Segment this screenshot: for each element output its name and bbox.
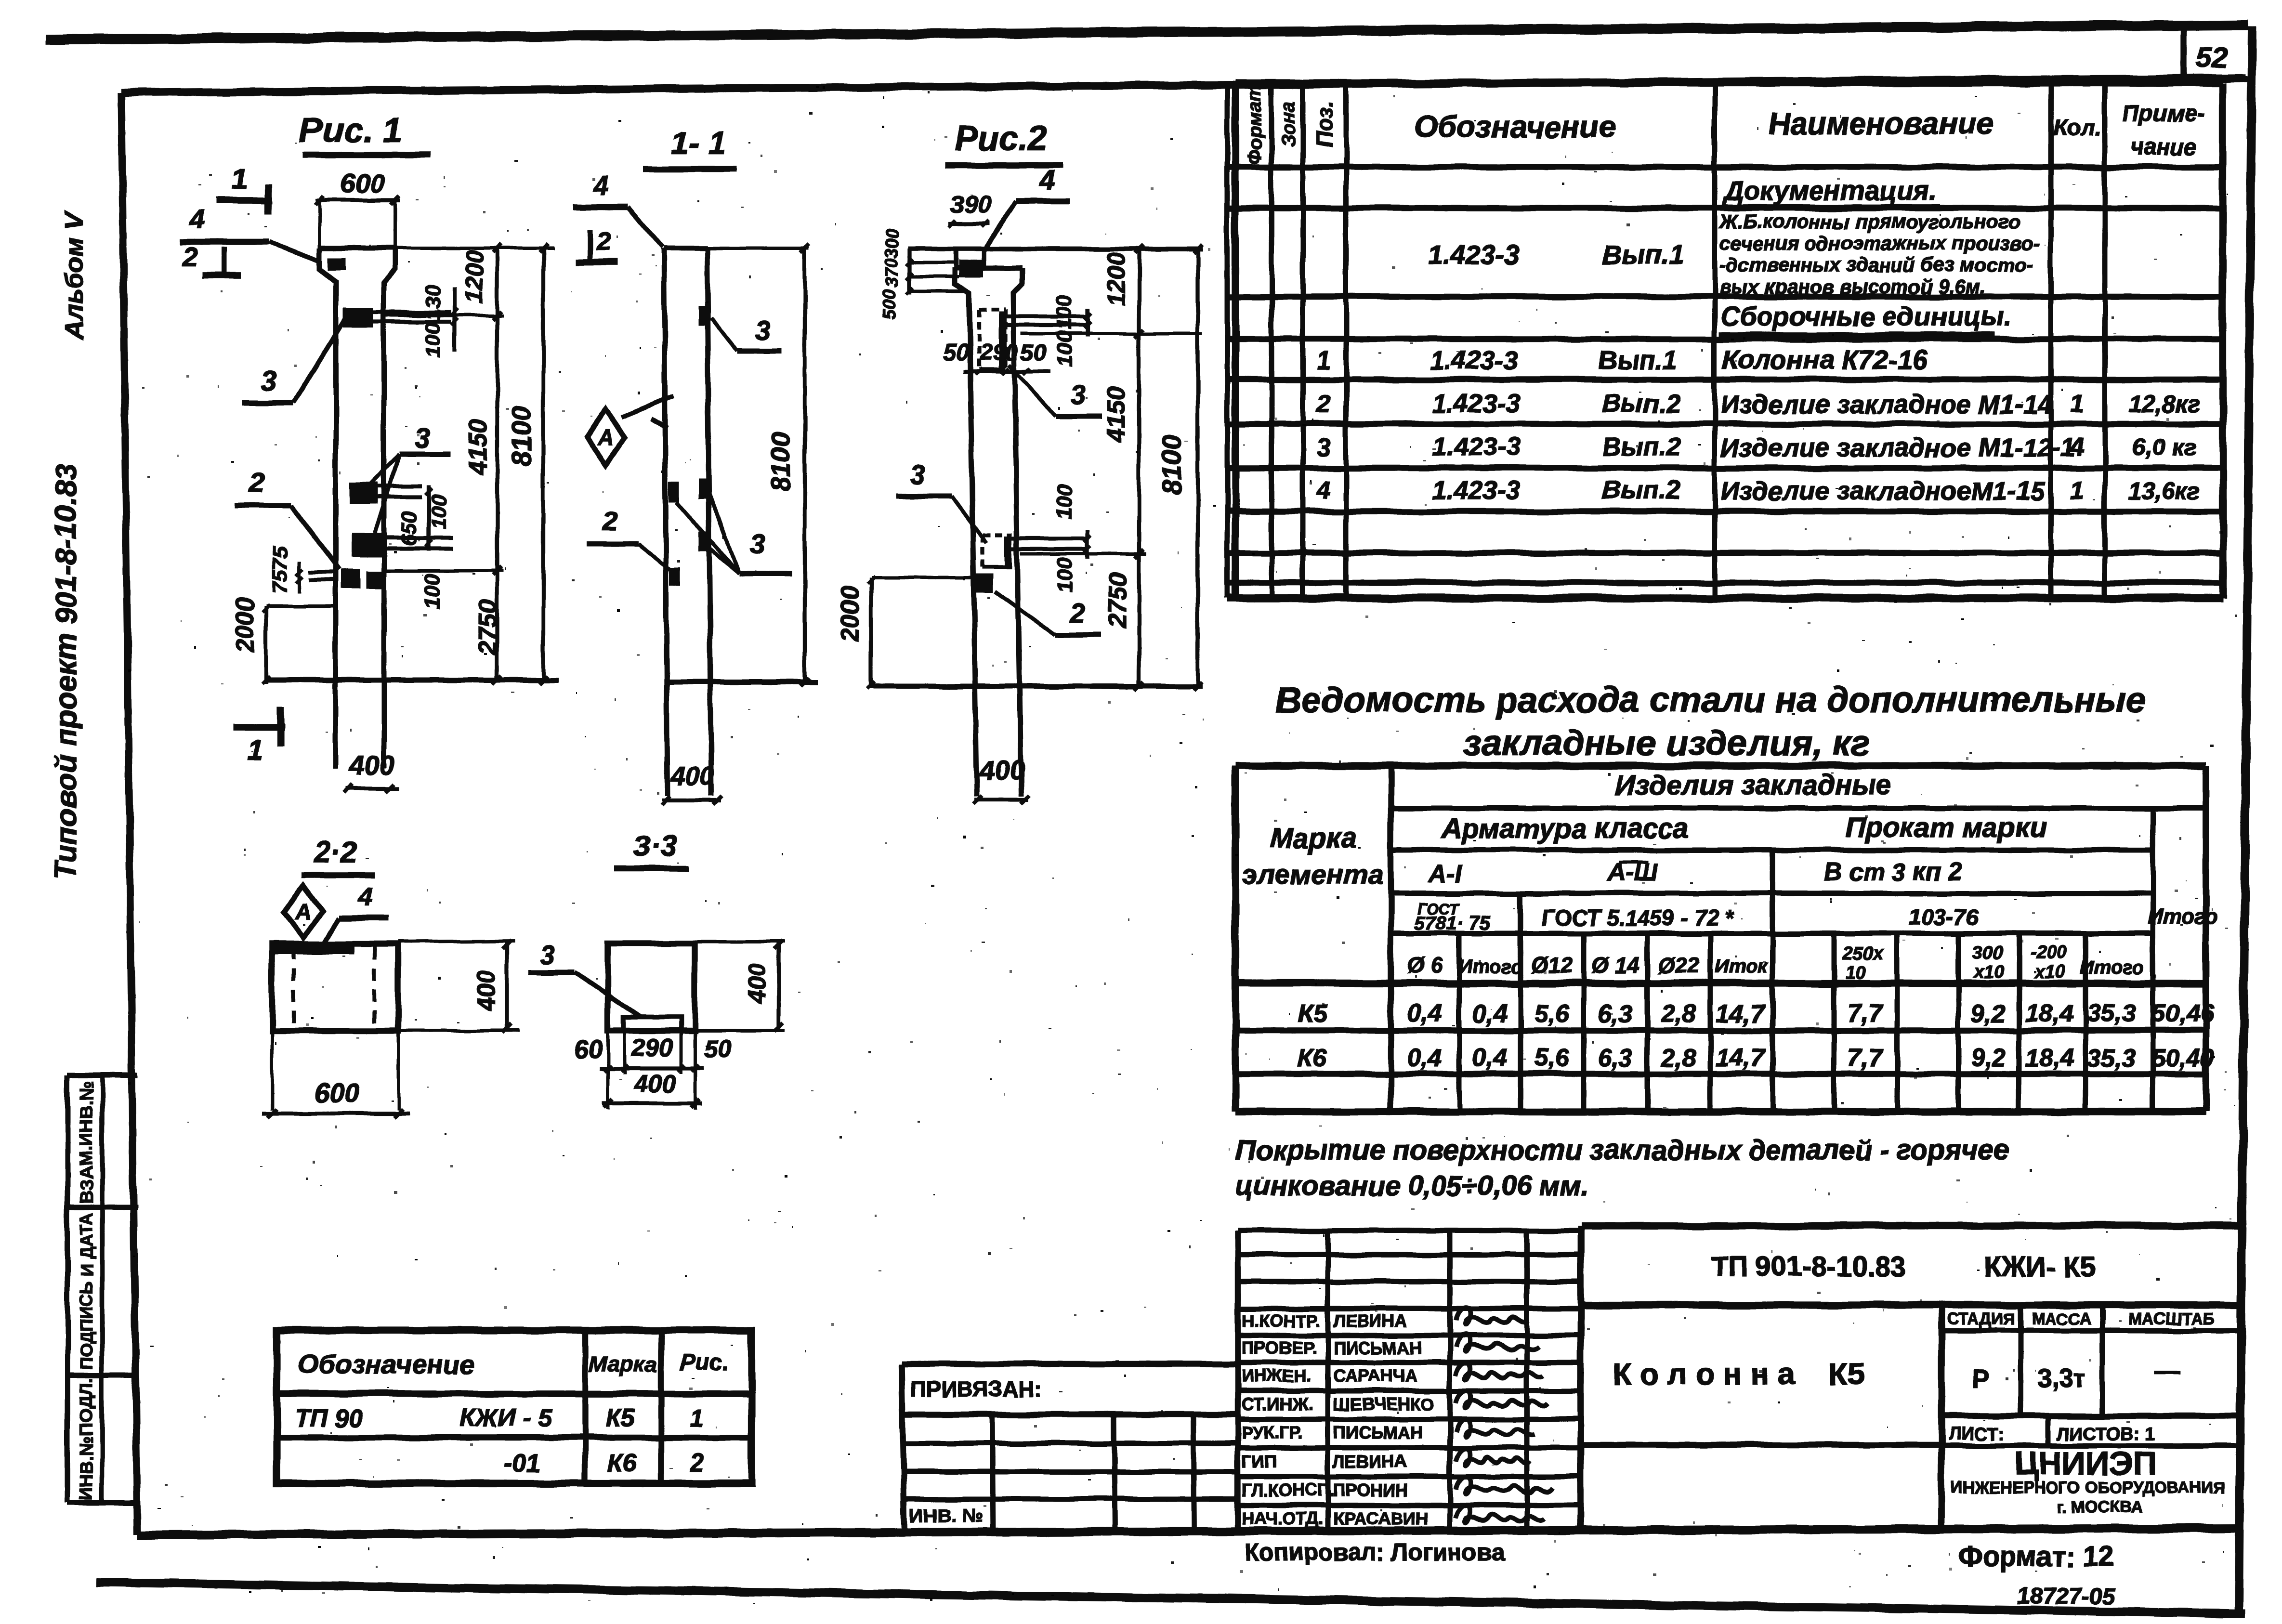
stamp name Kolonna K5 <box>1613 1357 1864 1391</box>
svg-text:Формат: Формат <box>1244 84 1265 165</box>
svg-text:14,7: 14,7 <box>1716 1000 1765 1028</box>
svg-text:А: А <box>597 425 614 450</box>
svg-text:1.423-3: 1.423-3 <box>1430 346 1518 375</box>
specification table grid <box>1227 83 2223 598</box>
svg-text:1.423-3: 1.423-3 <box>1428 239 1520 270</box>
section 3-3 dim 60 290 50 <box>575 1031 732 1074</box>
sidebar rotated text inv n podl <box>77 1377 97 1501</box>
specification table header Primechanie <box>2122 101 2204 160</box>
vedomost data row K6 <box>1298 1044 2215 1072</box>
svg-text:КЖИ- К5: КЖИ- К5 <box>1984 1251 2096 1283</box>
svg-text:ВЗАМ.ИНВ.№: ВЗАМ.ИНВ.№ <box>77 1081 97 1204</box>
svg-text:103-76: 103-76 <box>1909 904 1978 930</box>
section 2-2 title <box>302 836 375 875</box>
svg-text:ПРОНИН: ПРОНИН <box>1333 1480 1408 1500</box>
svg-text:2750: 2750 <box>474 599 502 655</box>
page top border line <box>46 25 2248 39</box>
svg-text:Обозначение: Обозначение <box>1414 109 1615 144</box>
svg-text:ГЛ.КОНСП.: ГЛ.КОНСП. <box>1242 1480 1335 1500</box>
svg-text:1: 1 <box>247 734 263 766</box>
vedomost header A-III <box>1606 858 1659 886</box>
Ris.2 extension lines right <box>1021 334 1203 554</box>
inventory number 18727-05 <box>2018 1584 2116 1609</box>
svg-text:8100: 8100 <box>765 432 796 493</box>
svg-text:ГОСТ 5.1459 - 72 *: ГОСТ 5.1459 - 72 * <box>1541 905 1734 930</box>
svg-text:4: 4 <box>1039 164 1054 195</box>
Ris.2 dim 100 100 upper right <box>1052 294 1091 367</box>
svg-text:Рис.2: Рис.2 <box>955 119 1047 158</box>
svg-text:0,4: 0,4 <box>1407 1000 1442 1028</box>
svg-text:290: 290 <box>631 1034 673 1062</box>
svg-text:1.423-3: 1.423-3 <box>1432 432 1520 461</box>
section 3-3 label 3 leader <box>528 940 641 1017</box>
Ris.1 section marker 1 bottom <box>234 707 285 766</box>
svg-text:18,4: 18,4 <box>2025 1000 2073 1028</box>
small table headers <box>298 1349 729 1379</box>
svg-text:Типовой проект 901-8-10.83: Типовой проект 901-8-10.83 <box>50 464 83 880</box>
svg-text:6,0 кг: 6,0 кг <box>2132 434 2197 461</box>
svg-text:А: А <box>295 899 311 924</box>
kopiroval text <box>1245 1539 1505 1566</box>
svg-text:Колонна К72-16: Колонна К72-16 <box>1722 344 1928 375</box>
Ris.1 embedded plate 3 upper with bolts <box>343 308 452 328</box>
svg-text:Ø22: Ø22 <box>1658 953 1700 978</box>
spec row pos 2 <box>1316 389 2201 419</box>
svg-text:50,40: 50,40 <box>2151 1044 2214 1072</box>
svg-text:2: 2 <box>1316 390 1331 418</box>
svg-text:100: 100 <box>427 494 451 530</box>
Ris.2 lower plate 3 dashed with bolts <box>983 535 1088 567</box>
svg-text:6,3: 6,3 <box>1598 1000 1633 1028</box>
svg-text:2000: 2000 <box>231 597 259 654</box>
svg-text:Альбом V: Альбом V <box>60 211 89 340</box>
svg-text:ИНЖЕН.: ИНЖЕН. <box>1242 1366 1311 1386</box>
section 3-3 title <box>615 830 688 869</box>
svg-text:г. МОСКВА: г. МОСКВА <box>2057 1498 2142 1516</box>
svg-text:75: 75 <box>268 547 292 570</box>
svg-text:400: 400 <box>979 755 1024 785</box>
section 2-2 anchor dashed lines <box>293 947 374 1029</box>
svg-text:Рис.: Рис. <box>680 1350 728 1375</box>
svg-text:Кол.: Кол. <box>2053 116 2101 141</box>
svg-text:Изделия закладные: Изделия закладные <box>1615 770 1892 801</box>
svg-text:сечения одноэтажных произво-: сечения одноэтажных произво- <box>1719 232 2040 254</box>
svg-text:2: 2 <box>602 505 617 536</box>
svg-text:2000: 2000 <box>836 586 864 642</box>
svg-text:Поз.: Поз. <box>1312 101 1337 147</box>
Ris.1 bottom level line <box>266 678 559 683</box>
Ris.1 dim 2000 left <box>231 597 337 684</box>
inv no label <box>909 1505 983 1526</box>
svg-text:ЛИСТ:: ЛИСТ: <box>1948 1424 2004 1444</box>
small table row 1 <box>295 1404 704 1432</box>
svg-text:600: 600 <box>315 1077 359 1108</box>
svg-text:50,46: 50,46 <box>2151 1000 2215 1028</box>
svg-text:100: 100 <box>1052 294 1076 330</box>
svg-text:2: 2 <box>249 467 264 498</box>
svg-text:3: 3 <box>750 528 765 559</box>
svg-text:600: 600 <box>340 168 385 198</box>
section 1-1 level line <box>665 680 817 685</box>
svg-text:3: 3 <box>910 459 925 490</box>
svg-text:9,2: 9,2 <box>1971 1000 2006 1028</box>
svg-text:400: 400 <box>670 762 714 791</box>
section 1-1 view marker A diamond <box>587 396 673 465</box>
svg-text:НАЧ.ОТД.: НАЧ.ОТД. <box>1242 1508 1323 1528</box>
Ris.1 dim line 8100 overall <box>506 244 548 684</box>
spec row pos 3 <box>1317 432 2197 462</box>
svg-text:4150: 4150 <box>1102 386 1130 443</box>
specification table rotated col headers <box>1244 84 1337 165</box>
Ris.2 column outline with tenon <box>954 249 1022 796</box>
svg-text:1: 1 <box>2071 390 2085 418</box>
Ris.1 section marker 2 <box>182 241 241 275</box>
svg-text:1: 1 <box>2071 477 2085 505</box>
spec row pos 4 <box>1316 476 2201 506</box>
svg-text:370: 370 <box>882 258 902 287</box>
svg-text:х10: х10 <box>2034 962 2065 982</box>
section 2-2 dim 600 bottom <box>262 1077 409 1118</box>
svg-text:1: 1 <box>231 163 247 195</box>
svg-text:35,3: 35,3 <box>2087 1044 2136 1072</box>
svg-text:60: 60 <box>575 1035 603 1063</box>
svg-text:290: 290 <box>979 340 1018 366</box>
svg-text:Прокат марки: Прокат марки <box>1845 812 2046 843</box>
svg-text:Формат: 12: Формат: 12 <box>1958 1541 2113 1572</box>
svg-text:300: 300 <box>882 229 902 258</box>
Ris.2 dim line 1200 4150 2750 <box>1102 245 1143 691</box>
svg-text:1.423-3: 1.423-3 <box>1432 476 1520 505</box>
section 3-3 dim 400 right <box>695 941 785 1032</box>
svg-text:250х: 250х <box>1842 943 1884 964</box>
small table row 2 <box>504 1449 704 1477</box>
Ris.2 marker 4 leader <box>984 164 1070 251</box>
Ris.2 embedded plate 4 on tenon <box>958 260 984 277</box>
Ris.1 dim chain 650 100 middle <box>397 485 451 609</box>
section 2-2 label 4 leader <box>324 882 388 944</box>
Ris.1 dim line 1200 4150 2750 <box>461 244 502 684</box>
vedomost header Marka elementa <box>1242 823 1384 890</box>
svg-text:12,8кг: 12,8кг <box>2128 391 2200 418</box>
section 1-1 column bar <box>664 248 711 796</box>
svg-text:Копировал: Логинова: Копировал: Логинова <box>1245 1539 1505 1566</box>
svg-text:Изделие закладное М1-14: Изделие закладное М1-14 <box>1720 390 2052 419</box>
svg-text:Покрытие поверхности закладн: Покрытие поверхности закладных деталей -… <box>1235 1135 2009 1166</box>
Ris.1 dim chain 100 100 top <box>421 285 459 358</box>
svg-text:3,3т: 3,3т <box>2037 1364 2086 1393</box>
spec row pos 1 kolonna <box>1317 344 1928 375</box>
svg-text:ЛЕВИНА: ЛЕВИНА <box>1333 1452 1407 1471</box>
svg-text:ЛИСТОВ: 1: ЛИСТОВ: 1 <box>2057 1424 2155 1444</box>
svg-text:ПИСЬМАН: ПИСЬМАН <box>1333 1338 1422 1358</box>
svg-text:Итого: Итого <box>2080 957 2144 978</box>
vedomost 103-76 <box>1909 904 1978 930</box>
vedomost header A-I <box>1427 860 1462 888</box>
svg-text:1- 1: 1- 1 <box>671 125 726 161</box>
svg-text:Рис. 1: Рис. 1 <box>300 111 402 150</box>
svg-text:-01: -01 <box>504 1449 540 1477</box>
svg-text:Зона: Зона <box>1278 101 1299 148</box>
svg-text:Марка: Марка <box>1270 823 1356 854</box>
Ris.1 embedded plate 3 middle A with bolts <box>350 482 422 504</box>
Ris.1 dim 400 bottom <box>343 750 400 793</box>
svg-text:вых кранов высотой 9,6м.: вых кранов высотой 9,6м. <box>1719 275 1985 298</box>
svg-text:КРАСАВИН: КРАСАВИН <box>1333 1508 1428 1528</box>
svg-text:18727-05: 18727-05 <box>2018 1584 2116 1609</box>
svg-text:ИНВ.№ПОДЛ.: ИНВ.№ПОДЛ. <box>77 1377 97 1501</box>
svg-text:чание: чание <box>2130 135 2197 160</box>
svg-text:Изделие закладное М1-12-1: Изделие закладное М1-12-1 <box>1720 433 2075 462</box>
svg-text:СТ.ИНЖ.: СТ.ИНЖ. <box>1242 1394 1312 1414</box>
svg-text:1: 1 <box>1317 347 1331 375</box>
page bottom border line <box>96 1583 2245 1613</box>
svg-text:300: 300 <box>1972 943 2002 963</box>
section 1-1 dim 8100 <box>707 244 809 686</box>
Ris.1 label 3 middle leader <box>371 423 451 534</box>
svg-text:ЦНИИЭП: ЦНИИЭП <box>2015 1445 2156 1482</box>
vedomost title line 1 <box>1276 680 2146 720</box>
svg-text:Р: Р <box>1972 1364 1990 1393</box>
Ris.2 upper plate 3 recess dashed <box>979 309 1088 370</box>
svg-text:Итого: Итого <box>1458 956 1522 977</box>
svg-text:А-I: А-I <box>1427 860 1462 888</box>
svg-text:4: 4 <box>189 204 205 234</box>
svg-text:100: 100 <box>421 574 445 609</box>
svg-text:МАССА: МАССА <box>2032 1310 2092 1328</box>
svg-text:В ст 3 кп 2: В ст 3 кп 2 <box>1824 858 1962 886</box>
svg-text:3: 3 <box>539 940 554 970</box>
svg-text:КЖИ - 5: КЖИ - 5 <box>459 1404 553 1432</box>
svg-text:35,3: 35,3 <box>2087 1000 2136 1028</box>
section 1-1 marker 4 <box>573 170 663 247</box>
svg-text:2,8: 2,8 <box>1661 1044 1696 1072</box>
section 3-3 plate 3 <box>623 1017 681 1031</box>
sidebar rotated text vzam inv <box>77 1081 97 1204</box>
svg-text:К5: К5 <box>606 1404 636 1432</box>
Ris.2 dim 400 bottom <box>973 755 1029 804</box>
svg-text:4150: 4150 <box>464 419 492 475</box>
Ris.2 dim 2000 left <box>836 576 973 689</box>
svg-text:75: 75 <box>268 570 292 593</box>
svg-text:3·3: 3·3 <box>633 830 677 863</box>
svg-text:0,4: 0,4 <box>1472 1000 1507 1028</box>
section 1-1 marker 2 <box>575 226 618 262</box>
svg-text:1.423-3: 1.423-3 <box>1432 389 1520 418</box>
svg-text:4: 4 <box>358 882 373 911</box>
svg-text:500: 500 <box>879 289 899 319</box>
svg-text:3: 3 <box>755 315 770 345</box>
svg-text:3: 3 <box>415 423 430 454</box>
section 2-2 outline rect <box>272 944 398 1031</box>
vedomost header VSt3 kp2 <box>1824 858 1962 886</box>
svg-text:Ø 6: Ø 6 <box>1407 953 1443 978</box>
svg-text:-200: -200 <box>2030 943 2067 963</box>
vedomost itogo right <box>2148 905 2218 929</box>
Ris.2 bottom plate 2 <box>972 574 993 592</box>
stamp doc number <box>1711 1251 2096 1283</box>
svg-text:Сборочные единицы.: Сборочные единицы. <box>1720 301 2011 331</box>
privyazan block grid <box>902 1364 1238 1533</box>
svg-text:Вып.2: Вып.2 <box>1602 432 1680 461</box>
svg-text:14,7: 14,7 <box>1716 1044 1765 1072</box>
margin rotated text Tipovoj proekt 901-8-10.83 <box>50 464 83 880</box>
Ris.1 dim 75 75 left bolts <box>268 547 303 593</box>
svg-text:2: 2 <box>182 241 197 272</box>
svg-text:ПОДПИСЬ И ДАТА: ПОДПИСЬ И ДАТА <box>77 1213 96 1369</box>
section 1-1 label 3 lower <box>676 495 792 574</box>
svg-text:1: 1 <box>691 1404 705 1432</box>
svg-text:50: 50 <box>1021 340 1047 366</box>
svg-text:САРАНЧА: САРАНЧА <box>1333 1366 1417 1386</box>
svg-text:Вып.1: Вып.1 <box>1602 239 1684 270</box>
Ris.1 embedded plate 3 middle B with bolts <box>352 534 453 557</box>
signature table grid <box>1238 1226 1581 1533</box>
svg-text:Н.КОНТР.: Н.КОНТР. <box>1242 1311 1320 1331</box>
svg-text:100: 100 <box>421 322 445 358</box>
figure Ris.2 title <box>945 119 1062 165</box>
Ris.1 section marker 4 leader <box>180 204 320 262</box>
Ris.2 top level line <box>908 247 1203 251</box>
spec row Sborochnye edinicy <box>1719 301 2011 334</box>
svg-text:4: 4 <box>1316 477 1331 505</box>
svg-text:3: 3 <box>261 365 276 396</box>
Ris.1 section marker 1 top <box>216 163 272 214</box>
svg-text:50: 50 <box>943 340 969 366</box>
svg-text:ПРОВЕР.: ПРОВЕР. <box>1242 1338 1317 1358</box>
svg-text:Вып.1: Вып.1 <box>1598 346 1677 375</box>
svg-text:РУК.ГР.: РУК.ГР. <box>1242 1423 1303 1442</box>
specification table header Kol <box>2053 116 2101 141</box>
svg-text:2·2: 2·2 <box>314 836 357 869</box>
section 1-1 label 3 upper <box>711 315 782 351</box>
sidebar rotated text podpis i data <box>77 1213 96 1369</box>
svg-text:400: 400 <box>743 963 770 1004</box>
stamp stadia massa masshtab header <box>1941 1305 2241 1416</box>
svg-text:9,2: 9,2 <box>1971 1044 2006 1072</box>
vedomost gost 5.1459-72 <box>1541 905 1734 930</box>
svg-text:ТП 901-8-10.83: ТП 901-8-10.83 <box>1711 1251 1906 1283</box>
svg-text:100: 100 <box>1052 557 1076 593</box>
stamp stadia massa masshtab values <box>1972 1357 2180 1393</box>
svg-text:50: 50 <box>704 1035 732 1063</box>
Ris.1 label 3 upper leader <box>242 319 345 403</box>
signature table rows text <box>1242 1311 1434 1528</box>
drawing frame bottom line <box>137 1528 2240 1535</box>
svg-text:Ø 14: Ø 14 <box>1591 953 1639 978</box>
drawing frame top line <box>121 78 2245 92</box>
stamp organization <box>1951 1445 2225 1516</box>
svg-text:0,4: 0,4 <box>1407 1044 1442 1072</box>
privyazan label <box>910 1376 1042 1401</box>
section 1-1 title <box>643 125 736 169</box>
section 1-1 plates <box>669 305 709 586</box>
Ris.2 label 2 leader <box>995 591 1102 635</box>
svg-text:2: 2 <box>596 226 611 256</box>
svg-text:ШЕВЧЕНКО: ШЕВЧЕНКО <box>1333 1394 1434 1414</box>
signatures column <box>1456 1308 1552 1522</box>
svg-text:Ведомость расхода стали на доп: Ведомость расхода стали на дополнительны… <box>1276 680 2146 720</box>
section 2-2 extension lines down <box>272 1031 398 1110</box>
svg-text:ИНЖЕНЕРНОГО ОБОРУДОВАНИЯ: ИНЖЕНЕРНОГО ОБОРУДОВАНИЯ <box>1951 1479 2225 1497</box>
svg-text:52: 52 <box>2196 41 2228 74</box>
svg-text:закладные изделия, кг: закладные изделия, кг <box>1463 723 1870 763</box>
svg-text:5781· 75: 5781· 75 <box>1414 913 1491 934</box>
svg-text:130: 130 <box>421 285 445 320</box>
Ris.1 dim 600 top <box>315 168 400 248</box>
vedomost gost 5781-75 <box>1414 900 1491 934</box>
svg-text:100: 100 <box>1052 331 1076 367</box>
Ris.2 bottom level line <box>870 684 1203 689</box>
specification table header Oboznachenie <box>1414 109 1615 144</box>
stamp list row <box>1941 1416 2241 1446</box>
svg-text:Наименование: Наименование <box>1768 106 1993 141</box>
svg-text:400: 400 <box>634 1070 676 1098</box>
svg-text:8100: 8100 <box>1156 435 1187 495</box>
vedomost data row K5 <box>1298 1000 2215 1028</box>
Ris.1 extension lines right <box>384 248 554 571</box>
svg-text:Вып.2: Вып.2 <box>1602 389 1680 418</box>
vedomost subheaders <box>1407 943 2144 983</box>
svg-text:3: 3 <box>1071 379 1086 409</box>
Ris.2 left dim chain 500 370 300 <box>879 229 968 320</box>
svg-text:7,7: 7,7 <box>1848 1044 1883 1072</box>
svg-text:К о л о н н а К5: К о л о н н а К5 <box>1613 1357 1864 1391</box>
Ris.1 label 2 leader <box>236 467 340 570</box>
sidebar stamp boxes <box>67 1075 140 1503</box>
svg-text:0,4: 0,4 <box>1472 1044 1507 1072</box>
note pokrytie line 1 <box>1235 1135 2009 1166</box>
svg-text:18,4: 18,4 <box>2025 1044 2073 1072</box>
svg-text:ИНВ. №: ИНВ. № <box>909 1505 983 1526</box>
svg-text:Вып.2: Вып.2 <box>1602 476 1680 505</box>
note pokrytie line 2 <box>1235 1170 1589 1202</box>
svg-text:Марка: Марка <box>589 1351 657 1376</box>
stamp outer and row lines <box>1581 1226 2244 1531</box>
Ris.2 dim 50 290 50 <box>943 340 1050 375</box>
format 12 text <box>1958 1541 2113 1572</box>
svg-text:Обозначение: Обозначение <box>298 1349 474 1379</box>
svg-text:4: 4 <box>592 170 608 201</box>
svg-text:Ø12: Ø12 <box>1531 953 1573 978</box>
svg-text:К6: К6 <box>1298 1044 1328 1072</box>
section 1-1 dim 400 bottom <box>661 762 722 805</box>
svg-text:СТАДИЯ: СТАДИЯ <box>1947 1310 2015 1328</box>
drawing frame left line <box>121 92 137 1534</box>
vedomost header Izdelija zakladnye <box>1615 770 1892 801</box>
svg-text:6,3: 6,3 <box>1598 1044 1633 1072</box>
svg-text:-дственных зданий без мосто-: -дственных зданий без мосто- <box>1719 254 2033 276</box>
svg-text:Иток: Иток <box>1715 956 1768 977</box>
svg-text:—: — <box>2154 1357 2180 1386</box>
svg-text:2750: 2750 <box>1104 572 1132 629</box>
section 2-2 plate 4 black bar <box>275 945 354 955</box>
svg-text:8100: 8100 <box>506 406 537 466</box>
spec row 1.423-3 Vyp.1 documentation <box>1428 210 2040 298</box>
svg-text:Изделие закладноеМ1-15: Изделие закладноеМ1-15 <box>1720 477 2045 506</box>
svg-text:Арматура класса: Арматура класса <box>1441 813 1689 844</box>
vedomost title line 2 <box>1463 723 1870 763</box>
vedomost table grid <box>1235 766 2206 1112</box>
section 2-2 dim 400 right <box>398 940 519 1033</box>
svg-text:10: 10 <box>1845 963 1865 983</box>
svg-text:Ж.Б.колонны прямоугольного: Ж.Б.колонны прямоугольного <box>1718 210 2020 233</box>
Ris.1 column outline <box>319 248 395 768</box>
page right border line <box>2239 26 2252 1613</box>
svg-text:650: 650 <box>397 511 421 547</box>
svg-text:ПИСЬМАН: ПИСЬМАН <box>1333 1423 1422 1442</box>
section 2-2 view marker A diamond <box>284 886 323 938</box>
svg-text:2,8: 2,8 <box>1661 1000 1696 1028</box>
